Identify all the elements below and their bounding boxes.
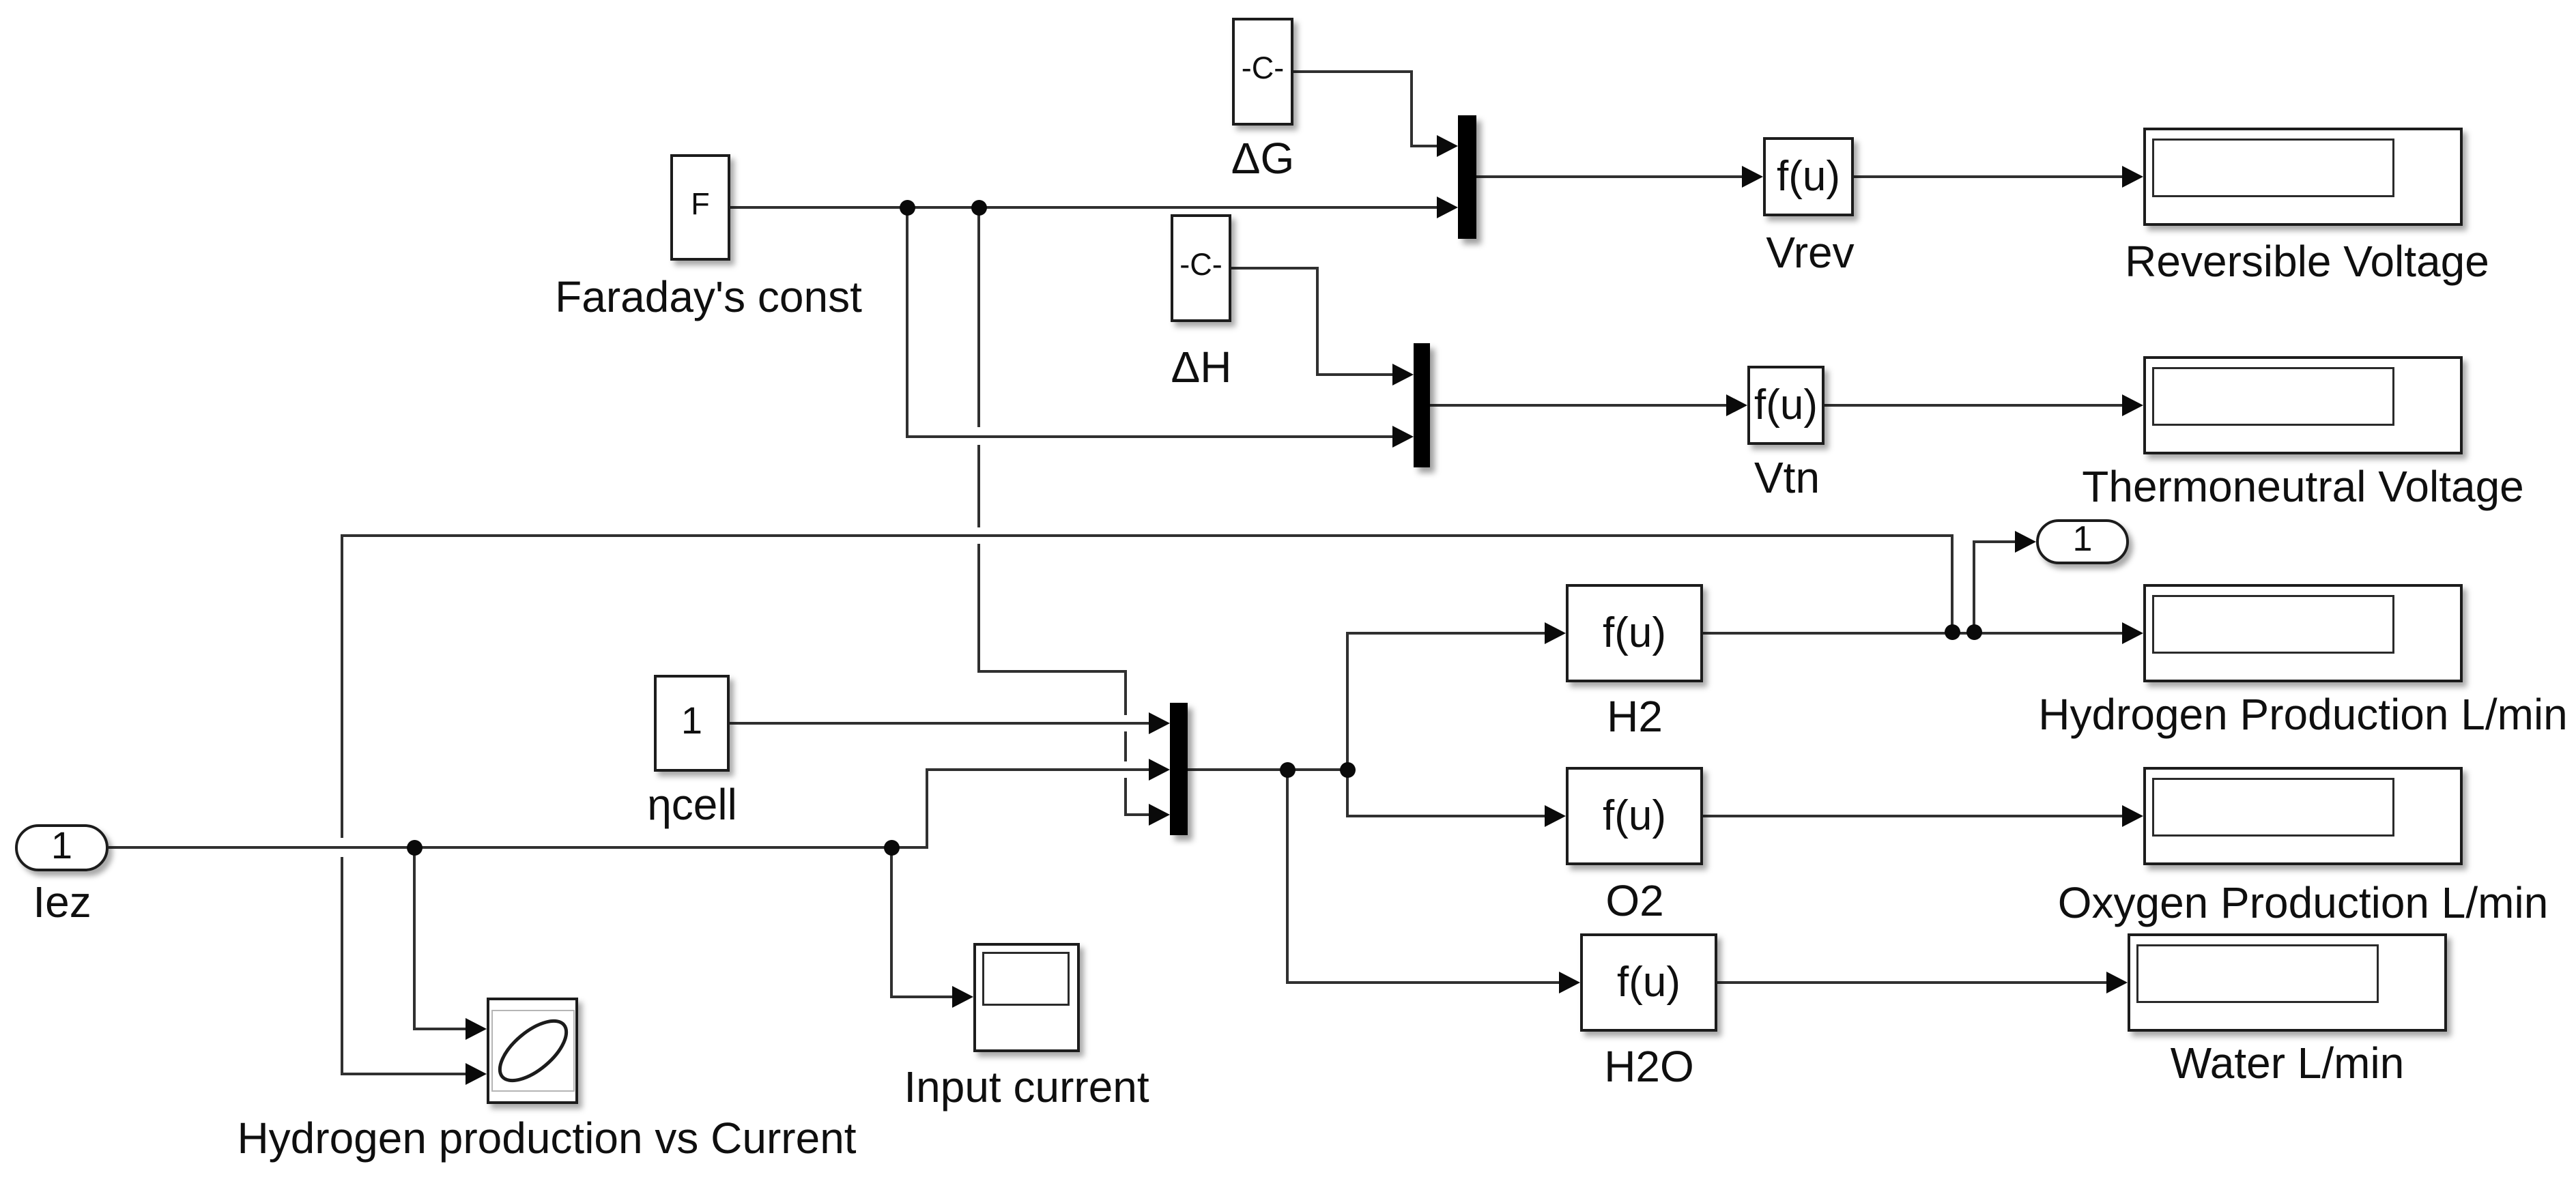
display Hydrogen Production bbox=[2143, 584, 2463, 682]
node on Iez wire B bbox=[884, 840, 900, 856]
arrow into XY graph input2 bbox=[466, 1063, 487, 1085]
label Vrev bbox=[1766, 231, 1854, 274]
display Reversible Voltage bbox=[2143, 128, 2463, 226]
label dH bbox=[1171, 345, 1232, 389]
node on F wire 2 bbox=[971, 200, 987, 216]
fcn block H2 bbox=[1566, 584, 1703, 682]
scope Input current bbox=[973, 943, 1080, 1052]
arrow Iez into Mux3 bbox=[1149, 759, 1170, 781]
arrow into Vrev bbox=[1742, 166, 1763, 188]
xy graph block bbox=[487, 998, 578, 1104]
arrow into Oxygen display bbox=[2122, 805, 2143, 827]
mux Mux3 bbox=[1170, 703, 1188, 835]
arrow into XY graph input1 bbox=[466, 1018, 487, 1040]
wire F branch vertical to Mux3 input3 (gap hops at y=1060 and y=1128) bbox=[1124, 670, 1127, 715]
wire Mux3 output bbox=[1188, 768, 1349, 771]
fcn block H2O bbox=[1580, 933, 1717, 1032]
wire dH output down to Mux2 input1 bbox=[1231, 267, 1319, 270]
label Faraday's const bbox=[555, 275, 862, 319]
wire dG output down to Mux1 input1 bbox=[1293, 70, 1413, 73]
mux Mux2 bbox=[1414, 343, 1430, 467]
label O2 bbox=[1605, 879, 1663, 922]
ellipse inside xy graph bbox=[490, 1011, 576, 1092]
arrow F into Mux2 bbox=[1392, 426, 1414, 448]
arrow F into Mux3 bbox=[1149, 804, 1170, 826]
inport 1 (Iez) bbox=[15, 824, 109, 871]
label Water L/min bbox=[2171, 1041, 2405, 1085]
constant 1 (etacell) bbox=[654, 675, 730, 772]
arrow F into Mux1 bbox=[1437, 197, 1458, 218]
arrow into Hydrogen display bbox=[2122, 622, 2143, 644]
wire H2O output to Water display bbox=[1717, 981, 2108, 984]
wire to outport 1 bbox=[1973, 540, 1975, 633]
node on H2 out 1 bbox=[1945, 624, 1960, 640]
label Iez bbox=[33, 880, 91, 924]
arrow etacell into Mux3 bbox=[1149, 712, 1170, 734]
label Input current bbox=[904, 1065, 1149, 1109]
arrow into Reversible display bbox=[2122, 166, 2143, 188]
wire Mux2 output to Vtn bbox=[1430, 404, 1728, 407]
wire F output to Mux1 bbox=[730, 206, 1439, 209]
arrow into O2 bbox=[1545, 805, 1566, 827]
wire H2 output to Hydrogen display with dots bbox=[1703, 632, 2124, 635]
fcn block Vrev bbox=[1763, 137, 1854, 216]
arrow dG into Mux1 bbox=[1437, 135, 1458, 157]
label Reversible Voltage bbox=[2125, 239, 2489, 283]
arrow into H2O bbox=[1559, 972, 1580, 993]
arrow dH into Mux2 bbox=[1392, 364, 1414, 386]
node on Mux3 out 1 bbox=[1280, 762, 1296, 778]
wire Iez up to Mux3 input2 bbox=[926, 770, 928, 847]
label Thermoneutral Voltage bbox=[2082, 465, 2524, 508]
constant F (Faraday's const) bbox=[670, 154, 730, 261]
wire Vtn output to Thermoneutral Voltage display bbox=[1824, 404, 2124, 407]
node on Mux3 out 2 bbox=[1340, 762, 1356, 778]
label Oxygen Production L/min bbox=[2058, 881, 2549, 925]
constant -C- (dH) bbox=[1171, 214, 1231, 322]
wire branch up to H2 bbox=[1346, 632, 1349, 770]
wire Iez dotB down to Scope bbox=[890, 846, 893, 998]
wire Iez dotA down to XY input1 bbox=[413, 846, 416, 1030]
arrow into outport 1 bbox=[2015, 531, 2036, 553]
node on H2 out 2 bbox=[1966, 624, 1982, 640]
label H2 bbox=[1607, 695, 1663, 738]
wire F branch dot1 down to Mux2 input2 bbox=[906, 207, 908, 438]
display Thermoneutral Voltage bbox=[2143, 356, 2463, 454]
label dG bbox=[1231, 136, 1295, 180]
node on Iez wire A bbox=[407, 840, 423, 856]
long vertical down to XY input2 (gap hop at y=1242) bbox=[341, 534, 343, 838]
wire O2 output to Oxygen display bbox=[1703, 815, 2124, 817]
wire branch down to H2O bbox=[1286, 770, 1289, 983]
arrow into Scope bbox=[952, 986, 973, 1008]
arrow into Thermoneutral display bbox=[2122, 394, 2143, 416]
label etacell bbox=[647, 783, 737, 826]
fcn block Vtn bbox=[1747, 366, 1824, 445]
arrow into Water display bbox=[2106, 972, 2128, 993]
label Vtn bbox=[1754, 456, 1820, 499]
wire F branch dot2 down (gap hops at y=640 and y=785) bbox=[977, 207, 980, 427]
outport 1 bbox=[2036, 519, 2129, 564]
label Hydrogen Production L/min bbox=[2038, 693, 2568, 736]
label Hydrogen production vs Current bbox=[237, 1116, 856, 1160]
label H2O bbox=[1604, 1045, 1694, 1088]
wire Iez output across bbox=[109, 846, 928, 849]
node on F wire 1 bbox=[900, 200, 915, 216]
arrow into Vtn bbox=[1726, 394, 1747, 416]
fcn block O2 bbox=[1566, 767, 1703, 865]
constant -C- (dG) bbox=[1232, 18, 1293, 126]
arrow into H2 bbox=[1545, 622, 1566, 644]
wire Mux1 output to Vrev bbox=[1476, 175, 1744, 178]
wire Vrev output to Reversible Voltage display bbox=[1854, 175, 2124, 178]
wire etacell output to Mux3 input1 bbox=[730, 722, 1151, 725]
wire loop from H2 out dot up and left to XY graph (gap hop at x=1434 handled on vertical) bbox=[1951, 534, 1954, 633]
wire branch down to O2 bbox=[1346, 770, 1349, 816]
display Oxygen Production bbox=[2143, 767, 2463, 865]
mux Mux1 bbox=[1458, 115, 1476, 239]
display Water bbox=[2128, 933, 2447, 1032]
